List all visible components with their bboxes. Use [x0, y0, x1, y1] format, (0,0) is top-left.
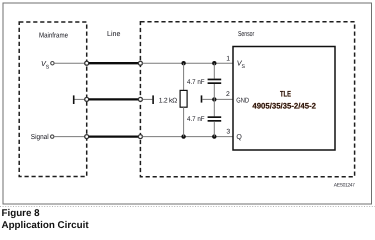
- node GND at mainframe boundary: [85, 97, 89, 101]
- wire capacitor C2 branch lower: [213, 122, 215, 137]
- svg-text:GND: GND: [236, 97, 249, 104]
- wire GND stub inside sensor: [142, 98, 152, 100]
- svg-text:4.7 nF: 4.7 nF: [187, 116, 205, 123]
- svg-text:Sensor: Sensor: [238, 29, 255, 38]
- wire resistor branch lower: [183, 107, 185, 136]
- svg-text:TLE: TLE: [280, 89, 291, 98]
- wire capacitor C2 branch upper: [213, 99, 215, 116]
- svg-text:Q: Q: [236, 134, 242, 141]
- sensor block dashed box: [140, 22, 354, 177]
- junction Signal / resistor branch: [181, 134, 185, 138]
- Vs terminal circle: [51, 62, 54, 65]
- svg-text:S: S: [242, 64, 246, 70]
- node Vs at sensor boundary: [138, 61, 142, 65]
- resistor R 1.2 kOhm body: [180, 90, 187, 107]
- svg-text:1.2 kΩ: 1.2 kΩ: [159, 97, 177, 104]
- wire Vs to sensor pin 1: [142, 62, 233, 64]
- node GND at sensor boundary: [138, 97, 142, 101]
- svg-text:1: 1: [226, 56, 230, 63]
- wire resistor branch upper: [183, 63, 185, 91]
- wire GND bar to sensor pin 2: [202, 98, 233, 100]
- node Signal at sensor boundary: [138, 135, 142, 139]
- node Vs at mainframe boundary: [85, 61, 89, 65]
- svg-text:4905/35/35-2/45-2: 4905/35/35-2/45-2: [252, 102, 316, 111]
- wire capacitor C1 branch lower: [213, 84, 215, 99]
- svg-text:Application Circuit: Application Circuit: [2, 220, 90, 231]
- GND stub end bar: [152, 95, 154, 104]
- junction GND / capacitor branch: [212, 97, 216, 101]
- svg-text:3: 3: [226, 128, 230, 135]
- capacitor C2 4.7 nF plates: [208, 116, 222, 118]
- svg-text:2: 2: [226, 91, 230, 98]
- sensor IC U1 body: [233, 47, 335, 151]
- GND pin start bar: [201, 95, 203, 102]
- svg-text:Figure 8: Figure 8: [2, 208, 41, 219]
- junction Vs / capacitor branch: [212, 61, 216, 65]
- wire Vs terminal to mainframe edge: [54, 62, 84, 64]
- svg-text:AES01247: AES01247: [334, 182, 355, 188]
- junction Signal / capacitor branch: [212, 134, 216, 138]
- wire GND bar to mainframe edge: [75, 98, 85, 100]
- wire Signal line segment (thick): [89, 135, 139, 137]
- GND terminal bar in mainframe: [73, 95, 75, 104]
- svg-text:Signal: Signal: [31, 132, 49, 141]
- wire Signal to sensor pin 3: [142, 136, 233, 138]
- wire Signal terminal to mainframe edge: [54, 136, 85, 138]
- capacitor C1 4.7 nF plates: [208, 79, 222, 81]
- svg-text:4.7 nF: 4.7 nF: [187, 79, 205, 86]
- mainframe block dashed box: [19, 22, 87, 177]
- wire Vs line segment (thick): [89, 62, 139, 64]
- Signal terminal circle: [51, 135, 54, 138]
- svg-text:S: S: [46, 64, 50, 70]
- svg-text:Mainframe: Mainframe: [39, 30, 68, 39]
- svg-text:Line: Line: [107, 29, 120, 38]
- wire GND line segment (thick): [89, 98, 139, 100]
- node Signal at mainframe boundary: [85, 135, 89, 139]
- junction Vs / resistor branch: [181, 61, 185, 65]
- wire capacitor C1 branch upper: [213, 63, 215, 78]
